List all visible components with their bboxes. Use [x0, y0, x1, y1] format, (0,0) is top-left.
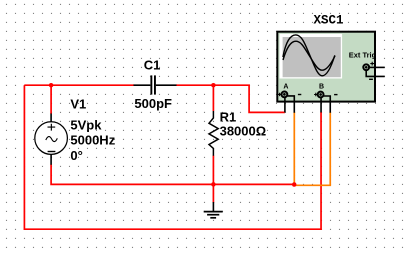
- junction V1+/top net: [49, 83, 54, 88]
- svg-text:B: B: [319, 84, 324, 91]
- wire scope B- (orange) elbow to ground junction: [294, 112, 330, 185]
- junction R1 top / top net: [211, 83, 216, 88]
- capacitor C1: [134, 75, 177, 94]
- wire R1 bottom to ground stub: [212, 156, 214, 203]
- oscilloscope XSC1: [277, 32, 375, 102]
- wire node R1-top to scope A+ pin: [213, 85, 285, 112]
- svg-text:38000Ω: 38000Ω: [220, 124, 267, 139]
- wire scope A- (orange) down to ground junction: [293, 112, 295, 184]
- AC voltage source V1: [35, 114, 68, 165]
- pin scope channel B: [314, 84, 337, 113]
- wire ground net: V1 minus to node at R1 bottom and on to A- junction: [51, 165, 294, 185]
- pin Ext Trig terminal: [363, 62, 384, 80]
- svg-text:R1: R1: [220, 110, 237, 125]
- junction R1 bottom / ground net: [211, 182, 216, 187]
- svg-text:0°: 0°: [70, 148, 82, 163]
- wire V1 plus stub to top net: [50, 85, 52, 114]
- svg-text:C1: C1: [144, 57, 161, 72]
- scope screen waveform small: [283, 41, 335, 70]
- pin scope channel A: [278, 84, 301, 113]
- wire R1 top red segment: [212, 85, 214, 111]
- svg-text:5000Hz: 5000Hz: [70, 133, 115, 148]
- svg-text:5Vpk: 5Vpk: [70, 117, 102, 132]
- resistor R1: [209, 111, 218, 156]
- svg-text:XSC1: XSC1: [314, 13, 344, 27]
- svg-text:Ext Trig: Ext Trig: [349, 50, 377, 59]
- scope screen waveform big: [283, 35, 335, 76]
- wire left loop: top net down and along bottom to scope B+: [24, 85, 321, 229]
- ground: [204, 202, 223, 218]
- wire top net: left corner to C1 left lead: [24, 84, 134, 86]
- junction A- B- / ground net: [292, 182, 297, 187]
- svg-text:V1: V1: [70, 97, 86, 112]
- svg-text:500pF: 500pF: [134, 96, 172, 111]
- svg-text:A: A: [283, 84, 288, 91]
- wire top net: C1 right lead to node at R1 top: [176, 84, 213, 86]
